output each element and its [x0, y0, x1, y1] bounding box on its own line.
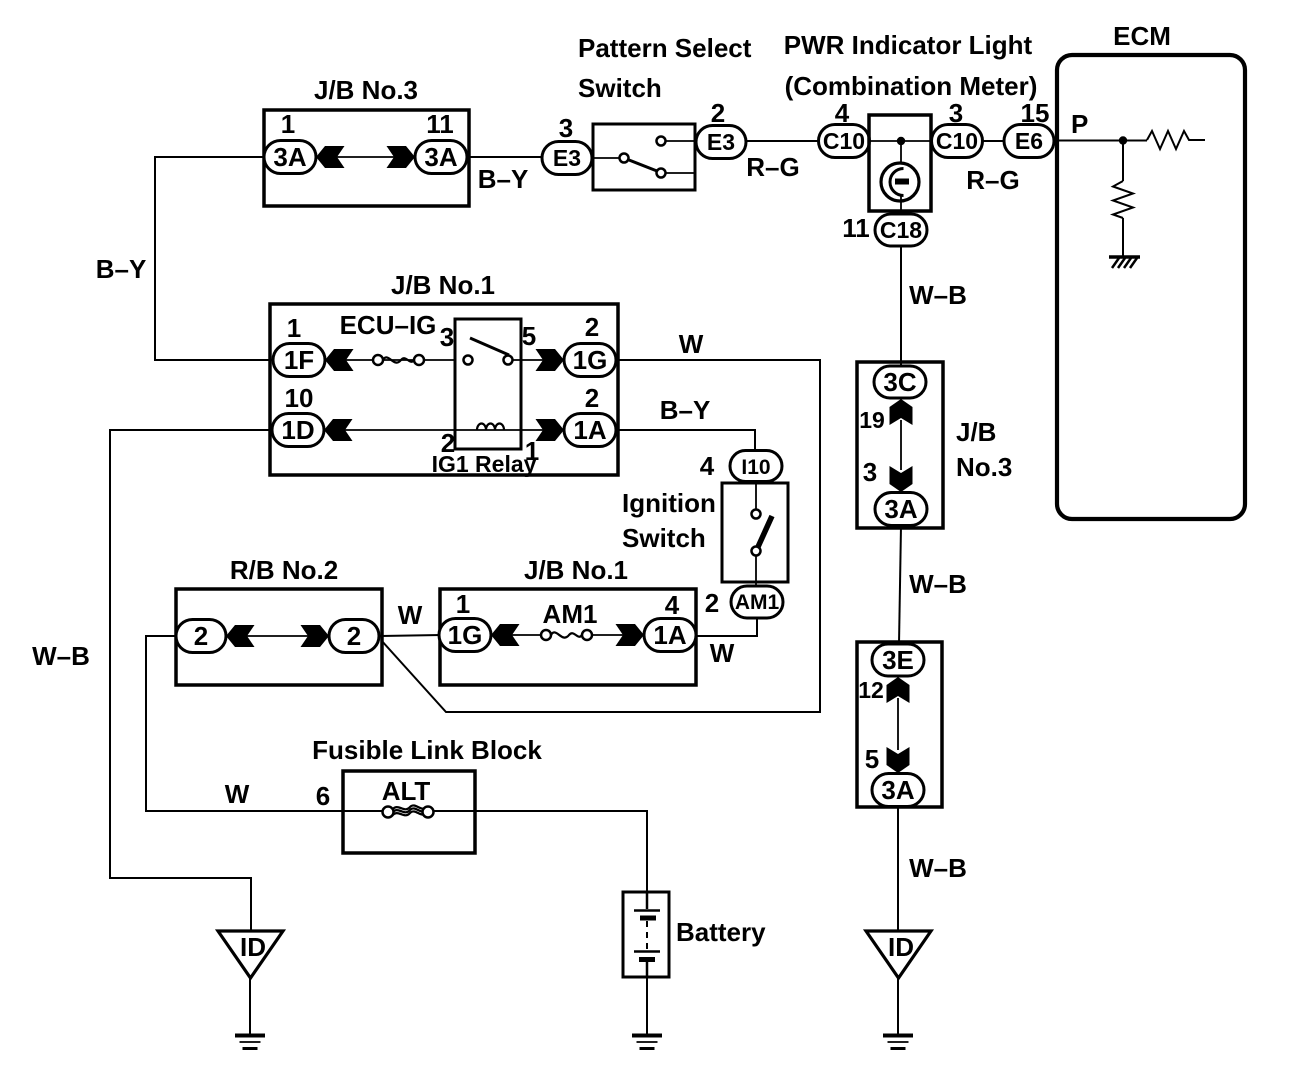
- svg-text:ID: ID: [240, 932, 266, 962]
- ground ID (right): [866, 931, 931, 1049]
- connector 1G: [536, 344, 617, 377]
- switch common wire: [593, 157, 619, 159]
- svg-text:W–B: W–B: [909, 280, 967, 310]
- wire fusible link to battery: [433, 811, 647, 892]
- svg-text:B–Y: B–Y: [660, 395, 711, 425]
- svg-text:C18: C18: [880, 217, 922, 243]
- wire inside block: [900, 420, 902, 470]
- wire node to vertical resistor: [1122, 141, 1124, 181]
- wire C10 to E6, net R-G: [983, 140, 1004, 142]
- connector 2 (left): [176, 620, 255, 653]
- connector 3A (right upper block): [875, 493, 927, 526]
- combination meter box: [869, 115, 931, 211]
- svg-text:10: 10: [285, 383, 314, 413]
- IG1 relay box: [455, 319, 521, 449]
- svg-text:PWR Indicator Light: PWR Indicator Light: [784, 30, 1033, 60]
- arrow up (pin 12): [887, 677, 910, 703]
- svg-text:3: 3: [863, 457, 877, 487]
- svg-text:2: 2: [347, 621, 361, 651]
- svg-text:W: W: [679, 329, 704, 359]
- ground (battery): [632, 1036, 662, 1049]
- svg-text:No.3: No.3: [956, 452, 1012, 482]
- wire lower contact to box edge: [666, 172, 695, 174]
- IG1 relay coil: [477, 424, 504, 431]
- svg-text:P: P: [1071, 109, 1088, 139]
- svg-text:2: 2: [711, 98, 725, 128]
- svg-text:2: 2: [705, 588, 719, 618]
- svg-text:Pattern Select: Pattern Select: [578, 33, 752, 63]
- svg-text:3: 3: [559, 113, 573, 143]
- svg-text:Battery: Battery: [676, 917, 766, 947]
- connector 2 (right): [301, 620, 380, 653]
- svg-text:B–Y: B–Y: [478, 164, 529, 194]
- fuse ECU-IG symbol: [373, 355, 424, 365]
- svg-text:11: 11: [426, 109, 454, 139]
- pattern select switch box: [593, 124, 695, 190]
- svg-text:Switch: Switch: [622, 523, 706, 553]
- relay switch contact right: [504, 356, 513, 365]
- svg-text:3C: 3C: [883, 367, 916, 397]
- J/B No.3 (right lower) block: [857, 642, 942, 807]
- svg-text:ID: ID: [888, 932, 914, 962]
- wire inside J/B No.3: [330, 156, 400, 158]
- svg-text:3A: 3A: [273, 142, 306, 172]
- wire through meter: [869, 140, 931, 142]
- svg-text:Ignition: Ignition: [622, 488, 716, 518]
- connector E3 (pin 3): [542, 142, 592, 175]
- svg-text:1G: 1G: [573, 345, 608, 375]
- svg-text:J/B No.1: J/B No.1: [391, 270, 495, 300]
- svg-text:E3: E3: [553, 145, 581, 171]
- arrow down (pin 3): [890, 466, 913, 492]
- connector 1D: [272, 414, 353, 447]
- wire AM1 to 1A, net W: [697, 618, 757, 636]
- svg-text:IG1 Relay: IG1 Relay: [432, 451, 537, 477]
- arrow up (pin 19): [890, 399, 913, 425]
- junction node in ECM: [1119, 136, 1127, 144]
- wire lamp to C18: [900, 194, 902, 215]
- connector 1G (lower): [439, 619, 520, 652]
- connector 1A (lower): [616, 619, 697, 652]
- svg-text:ECU–IG: ECU–IG: [340, 310, 437, 340]
- svg-text:W: W: [710, 638, 735, 668]
- wire B-Y net: 3A pin1 to J/B No.1 1F: [155, 157, 273, 360]
- wire E3 to C10, net R-G: [746, 140, 819, 142]
- svg-text:6: 6: [316, 781, 330, 811]
- svg-text:ECM: ECM: [1113, 21, 1171, 51]
- connector 3E: [872, 644, 924, 676]
- wire inside R/B No.2: [240, 635, 315, 637]
- wire R/B No.2 to fusible link, net W: [146, 636, 383, 811]
- svg-text:19: 19: [859, 407, 885, 433]
- svg-text:2: 2: [585, 383, 599, 413]
- svg-text:W: W: [398, 600, 423, 630]
- junction node: [897, 137, 905, 145]
- svg-text:E6: E6: [1015, 128, 1043, 154]
- connector E6: [1004, 125, 1054, 158]
- svg-text:ALT: ALT: [382, 776, 431, 806]
- ignition switch upper contact: [752, 510, 761, 519]
- Battery: [623, 892, 766, 977]
- svg-text:11: 11: [842, 213, 870, 243]
- wire 1D to ground, net W-B: [110, 430, 272, 931]
- svg-text:W: W: [225, 779, 250, 809]
- connector 3C: [874, 366, 926, 398]
- relay switch blade: [470, 338, 509, 355]
- svg-text:1F: 1F: [284, 345, 314, 375]
- wire 3A to 3E, net W-B: [899, 526, 901, 644]
- wire C18 to 3C, net W-B: [900, 246, 902, 366]
- svg-text:R–G: R–G: [746, 152, 799, 182]
- connector C10 (pin 4): [819, 125, 870, 158]
- svg-text:(Combination Meter): (Combination Meter): [785, 71, 1038, 101]
- wire relay to 1G: [513, 359, 564, 361]
- svg-text:5: 5: [522, 321, 536, 351]
- wire inside lower J/B No.1: [489, 634, 543, 636]
- svg-text:B–Y: B–Y: [96, 254, 147, 284]
- switch common contact: [620, 154, 629, 163]
- chassis ground (ECM internal): [1109, 257, 1140, 268]
- wire 3A to E3: [467, 156, 542, 158]
- wire E6 into ECM: [1054, 140, 1147, 142]
- wire battery to ground: [646, 977, 648, 1034]
- ignition switch lower contact: [752, 547, 761, 556]
- ignition switch blade: [758, 516, 773, 548]
- svg-text:AM1: AM1: [543, 599, 598, 629]
- svg-text:4: 4: [700, 451, 715, 481]
- wire 2 to 1G, net W: [379, 635, 441, 636]
- wire 1G to R/B No.2, net W: [381, 360, 820, 712]
- arrow down (pin 5): [887, 747, 910, 773]
- switch blade: [629, 160, 657, 171]
- PWR indicator lamp: [881, 163, 919, 201]
- fuse AM1 symbol: [541, 630, 592, 640]
- svg-text:AM1: AM1: [735, 591, 780, 614]
- connector E3 (pin 2): [696, 126, 746, 159]
- svg-text:3A: 3A: [424, 142, 457, 172]
- ECM block: [1057, 21, 1245, 519]
- fusible link ALT symbol: [383, 805, 434, 817]
- svg-text:W–B: W–B: [909, 853, 967, 883]
- connector I10: [730, 451, 782, 482]
- svg-text:Switch: Switch: [578, 73, 662, 103]
- wire contact to AM1: [755, 555, 757, 587]
- svg-text:1: 1: [456, 589, 470, 619]
- svg-text:3E: 3E: [882, 645, 914, 675]
- svg-text:W–B: W–B: [32, 641, 90, 671]
- connector 3A (right, male arrow): [387, 141, 468, 174]
- svg-text:4: 4: [665, 590, 680, 620]
- svg-text:1A: 1A: [573, 415, 606, 445]
- switch lower contact: [657, 169, 666, 178]
- svg-text:Fusible Link Block: Fusible Link Block: [312, 735, 542, 765]
- svg-text:1: 1: [281, 109, 295, 139]
- Fusible Link Block: [312, 735, 542, 853]
- wire 1D to 1A through relay coil: [320, 429, 564, 431]
- svg-text:J/B No.1: J/B No.1: [524, 555, 628, 585]
- wire node to lamp: [900, 141, 902, 170]
- R/B No.2 block: [176, 555, 382, 685]
- svg-text:5: 5: [865, 744, 879, 774]
- svg-text:3: 3: [440, 322, 454, 352]
- svg-text:1A: 1A: [653, 620, 686, 650]
- wire inside block: [897, 698, 899, 750]
- J/B No.3 (right upper) block: [857, 362, 943, 528]
- J/B No.1 (upper) block: [270, 270, 618, 475]
- resistor R-horizontal in ECM: [1147, 131, 1205, 149]
- svg-text:C10: C10: [823, 128, 865, 154]
- svg-text:E3: E3: [707, 129, 735, 155]
- connector 3A (right lower block): [872, 774, 924, 807]
- connector 1F: [273, 344, 354, 377]
- svg-text:J/B: J/B: [956, 417, 996, 447]
- svg-text:1: 1: [287, 313, 301, 343]
- svg-text:2: 2: [585, 312, 599, 342]
- relay switch contact left: [464, 356, 473, 365]
- switch upper contact: [657, 137, 666, 146]
- svg-text:2: 2: [194, 621, 208, 651]
- svg-text:12: 12: [858, 677, 884, 703]
- svg-text:J/B No.3: J/B No.3: [314, 75, 418, 105]
- resistor R-vertical in ECM: [1113, 181, 1133, 218]
- ground ID (left): [218, 931, 283, 1049]
- svg-text:R–G: R–G: [966, 165, 1019, 195]
- wire 1A to ignition switch, net B-Y: [616, 430, 755, 451]
- svg-text:C10: C10: [936, 128, 978, 154]
- J/B No.3 (top left) block: [264, 75, 469, 206]
- connector 1A: [536, 414, 617, 447]
- wire I10 to contact: [755, 481, 757, 509]
- connector C10 (pin 3): [932, 125, 983, 158]
- svg-text:1G: 1G: [448, 620, 483, 650]
- connector AM1: [731, 586, 783, 618]
- ignition switch box: [722, 483, 788, 582]
- wire 1F to relay: [320, 359, 455, 361]
- svg-text:3A: 3A: [884, 494, 917, 524]
- connector 3A (left, female arrow): [264, 141, 345, 174]
- svg-text:1D: 1D: [281, 415, 314, 445]
- svg-text:W–B: W–B: [909, 569, 967, 599]
- wire upper contact to box edge: [666, 140, 695, 142]
- svg-text:3A: 3A: [881, 775, 914, 805]
- wire resistor to ground: [1122, 218, 1124, 256]
- svg-text:I10: I10: [741, 456, 770, 479]
- wire 3A to ground ID, net W-B: [897, 807, 899, 931]
- J/B No.1 (lower) block: [440, 555, 696, 685]
- connector C18: [875, 214, 927, 246]
- svg-text:R/B No.2: R/B No.2: [230, 555, 338, 585]
